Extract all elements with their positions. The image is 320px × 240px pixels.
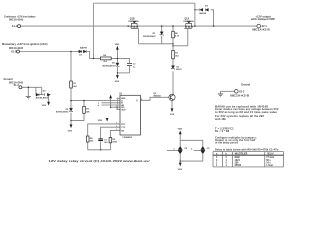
svg-text:Rx = 2 * R2: Rx = 2 * R2 [215,129,230,133]
diode D2 (back-to-back zener pair on ground line) [36,93,50,96]
svg-text:DMP3098L: DMP3098L [184,21,195,23]
wire VDD stem bottom right [179,134,181,140]
wire D3 left stub [195,9,199,11]
svg-text:VSS: VSS [68,130,73,132]
svg-text:47k: 47k [86,110,90,113]
svg-text:VDD: VDD [121,109,126,111]
svg-text:b: b [191,149,193,151]
svg-text:with 43k: with 43k [215,117,226,121]
svg-text:65536: 65536 [235,165,242,167]
wire ACC input y51.5 [20,51,79,53]
svg-text:1 hour: 1 hour [266,165,273,167]
wire C1 bottom lead [100,142,102,150]
wire VDD arrow stem upper [116,50,118,59]
wire top feedback rail y3 [94,2,195,4]
wire decoupling loop [180,140,203,161]
svg-text:b: b [98,105,100,107]
svg-text:2k2: 2k2 [175,55,179,57]
wire jumper a stub [167,149,178,151]
svg-text:C4: C4 [184,147,188,150]
wire X2-2 ground [221,90,235,92]
wire gate rail B y45.8 [173,45,188,47]
zener Z2 (at Q2 collector) [171,66,174,70]
wire gnd2 stem [220,91,222,94]
svg-text:R1: R1 [73,83,77,85]
wire IC pin3 y102.8 [102,102,121,104]
ground symbol at X2-2 [218,94,223,97]
wire R6 leads x173 [172,26,174,50]
resistor R5 (timing 470k) [109,138,112,143]
transistor Q2 (NPN) [169,94,175,100]
svg-text:Ground: Ground [4,78,13,81]
svg-text:08C1A-K2-B: 08C1A-K2-B [252,28,270,31]
svg-text:4.7k: 4.7k [175,35,180,38]
svg-text:3: 3 [116,129,117,131]
svg-text:2N3904: 2N3904 [153,94,161,97]
wire R3 bottom link y120.4 [71,113,84,120]
svg-text:08C1A-09-B: 08C1A-09-B [9,47,23,50]
svg-text:12V delay relay circuit (C) JA: 12V delay relay circuit (C) JAHA 2022 ww… [49,159,150,163]
wire R1 bottom to pin wire [70,88,72,101]
svg-text:47u: 47u [104,141,108,144]
svg-text:2k2: 2k2 [103,61,107,63]
svg-text:RTC: RTC [121,124,126,126]
zener Z3 (supply clamp) [116,63,119,67]
wire D2 right to VSS [48,95,49,102]
wire main +12V rail y26 [20,25,256,27]
connector X1-2 [17,50,20,53]
svg-text:B6V2: B6V2 [176,69,182,71]
svg-text:CTC: CTC [121,127,126,129]
svg-text:with delayed OFF: with delayed OFF [251,18,276,21]
IC pin names [121,98,138,132]
svg-text:D2: D2 [43,90,47,92]
wire gate rail A y43.8 [139,43,174,45]
svg-text:C5: C5 [207,148,211,150]
svg-text:X1-2: X1-2 [11,51,17,54]
svg-text:R3: R3 [86,109,90,111]
svg-text:VSS: VSS [115,81,120,83]
VSS arrow at ground clamp D2 [47,102,50,106]
wire VDD to IC pin5 [111,99,120,108]
wire R5 bottom lead [109,143,111,150]
wire gnd1 stem x28.3 [27,87,29,96]
notes text block [215,104,279,151]
resistor R8 (timing 5k6) [86,136,89,142]
wire R1 top lead x71 [70,52,72,82]
wire IC pin4 y105 [102,104,121,106]
wire vertical x194.9 [194,3,196,26]
svg-text:X1-1: X1-1 [12,25,18,28]
svg-text:VSS: VSS [42,105,47,107]
svg-text:CD4541B: CD4541B [122,136,132,139]
svg-text:VDD: VDD [98,120,103,122]
wire C3 bottom lead [129,66,131,73]
wire zener Z4 top lead [70,101,72,108]
wire VSS rail y72.9 [117,72,129,74]
wire D2 center stem [41,87,43,94]
IC pin numbers [116,99,142,131]
svg-text:BZV85-B6V2: BZV85-B6V2 [56,112,69,114]
connector X1-3 [19,86,22,89]
VDD arrow upper [116,46,119,50]
node junction dots [28,9,215,162]
wire IC pin2 long y100.6 [71,100,120,102]
capacitor C1 (timing, polarized) [98,139,103,141]
diode D1 BAV99 (series pair on ACC line) [79,50,87,53]
wire RS pin [110,131,120,138]
svg-text:ZD: ZD [176,66,179,68]
wire jumper b stub [194,149,201,151]
VSS arrow bottom right [179,163,182,167]
resistor R6 (gate pull-up) [172,31,175,38]
wire zener Z1 leads x161.7 [161,26,163,44]
wire Q2 emitter to VSS [171,101,173,109]
ground symbol at X1-3 [26,96,31,99]
wire ground input y87.3 [22,86,42,88]
svg-text:Ground: Ground [241,83,250,86]
resistor R3 (47k) [83,106,86,113]
svg-text:D3: D3 [205,6,209,8]
wire R8 bottom lead [87,142,89,150]
VSS arrow below Q2 [171,108,174,112]
connector X1-1 [18,25,21,28]
svg-text:BAV99: BAV99 [200,12,207,15]
capacitor C4 (decoupling, polarized) [178,146,182,153]
VSS arrow upper [116,75,119,79]
svg-text:BAV99: BAV99 [80,47,88,50]
svg-text:8: 8 [141,99,142,101]
svg-text:VDD: VDD [115,44,120,46]
svg-text:1: 1 [116,123,117,125]
wire R7 to zener Z2 [172,59,174,95]
connector X2-1 [257,24,261,28]
transistor Q1B (P-MOSFET left) [131,21,139,28]
svg-text:of the delay period: of the delay period [215,140,238,144]
wire timing bottom rail y149.8 [88,149,111,151]
svg-text:BZV85-B6V2: BZV85-B6V2 [102,65,115,67]
svg-text:2k2: 2k2 [73,86,77,88]
wire zener Z3 leads [116,58,118,73]
connector X2-2 [235,90,239,94]
wire IC pin6 stub [117,108,121,110]
wire zener Z4 bottom lead [70,113,72,125]
wire D3 right to main [211,10,214,26]
resistor R1 (2k2 on ACC) [70,81,73,88]
capacitor C3 (supply bypass) [127,63,132,65]
IC U1 CD4541B [120,95,140,135]
VSS arrow below Z4 [70,124,73,128]
diode D3 BAV99 (flyback pair, pointing left) [200,8,209,11]
svg-text:Momentary +12V from ignition (: Momentary +12V from ignition (ACC) [2,43,48,46]
svg-text:2: 2 [116,126,117,128]
wire Q1A gate x187.8 [187,29,189,46]
svg-text:DMP3098L: DMP3098L [129,21,140,23]
wire R3 top lead x84 [83,101,85,107]
wire Q1B gate x138.5 [138,29,140,44]
wire D2 left stem [35,87,37,93]
svg-text:12: 12 [116,108,118,110]
svg-text:MULTIPLIER: MULTIPLIER [235,153,248,155]
svg-text:08C1A-K2-B: 08C1A-K2-B [230,94,249,97]
svg-text:1u: 1u [133,66,136,68]
svg-text:VDD: VDD [178,129,183,131]
svg-text:BZV85-B6V2: BZV85-B6V2 [36,98,49,100]
svg-text:Delay in table below with R8=5: Delay in table below with R8=5k6 R5=470k… [215,147,279,151]
wire VSS arrow stem upper [116,73,118,75]
svg-text:X1-3: X1-3 [14,84,20,87]
svg-text:08C1A-09-B: 08C1A-09-B [9,19,23,22]
svg-text:5k6: 5k6 [90,141,94,143]
wire IC pin1 stub [117,97,121,99]
svg-text:to 6V2 as long as D2 and Z1 ha: to 6V2 as long as D2 and Z1 have same va… [215,110,277,114]
svg-text:D1: D1 [79,54,83,56]
svg-text:R6: R6 [175,33,179,35]
svg-text:VSS: VSS [170,114,175,116]
svg-text:X2-2: X2-2 [239,90,245,93]
capacitor C5 (decoupling, polarized) [201,146,205,153]
zener Z1 (gate clamp at x161.7) [160,32,163,36]
multiplier table [213,152,284,167]
svg-text:1024: 1024 [235,159,241,162]
svg-text:BZV85-B6V2: BZV85-B6V2 [143,36,156,38]
svg-text:R7: R7 [175,53,179,55]
svg-text:VSS: VSS [178,169,183,171]
resistor R4 (series supply, horizontal) [100,57,111,60]
wire BAV99 out bend [87,52,100,59]
VDD arrow at IC pin5 [109,95,112,99]
wire VDD node y58.4 [111,58,129,63]
resistor R7 (drive resistor) [172,50,175,58]
wire CTC pin [101,127,120,139]
wire RTC pin [88,124,120,136]
svg-text:470k: 470k [113,141,118,144]
zener Z4 (input clamp at x71) [69,108,72,112]
wire vertical x93.5 [93,3,95,58]
wire Q2 base from IC output [140,97,169,100]
wire VSS stem bottom right [179,161,181,162]
transistor Q1A (P-MOSFET right) [184,21,192,28]
svg-text:DELAY: DELAY [267,152,274,155]
